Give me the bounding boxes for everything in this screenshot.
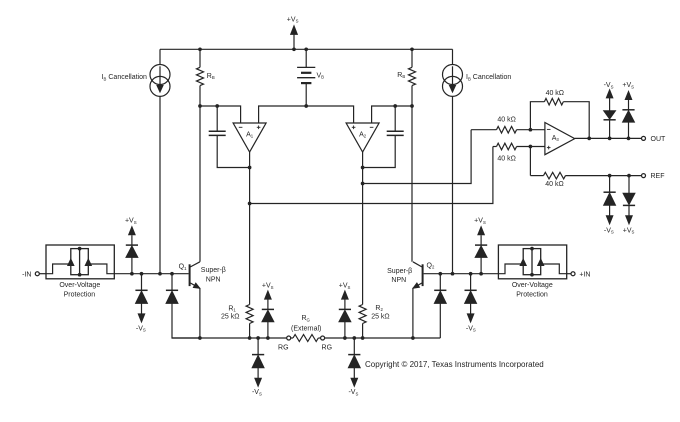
svg-text:R2: R2 (375, 305, 383, 312)
svg-text:Copyright © 2017, Texas Instru: Copyright © 2017, Texas Instruments Inco… (365, 360, 544, 369)
svg-text:25 kΩ: 25 kΩ (221, 314, 239, 321)
svg-text:-VS: -VS (466, 325, 476, 332)
svg-text:-IN: -IN (22, 271, 31, 278)
svg-text:Q1: Q1 (179, 264, 187, 271)
svg-text:+IN: +IN (579, 271, 590, 278)
svg-text:NPN: NPN (206, 276, 221, 283)
svg-text:Over-Voltage: Over-Voltage (59, 282, 100, 289)
svg-text:OUT: OUT (651, 136, 667, 143)
svg-text:RG: RG (322, 345, 333, 352)
svg-text:VB: VB (317, 72, 325, 79)
svg-text:RB: RB (207, 73, 215, 80)
svg-text:IB Cancellation: IB Cancellation (466, 74, 511, 81)
svg-text:+VS: +VS (474, 218, 486, 225)
svg-text:Super-β: Super-β (387, 268, 412, 275)
svg-text:+VS: +VS (287, 16, 299, 23)
svg-text:Protection: Protection (64, 291, 96, 298)
svg-text:-VS: -VS (136, 325, 146, 332)
svg-text:RG: RG (301, 315, 310, 322)
svg-text:+VS: +VS (623, 227, 635, 234)
svg-text:-VS: -VS (348, 389, 358, 396)
svg-text:-VS: -VS (252, 389, 262, 396)
svg-text:+VS: +VS (622, 82, 634, 89)
svg-text:+VS: +VS (339, 283, 351, 290)
svg-text:Protection: Protection (516, 291, 548, 298)
svg-text:Super-β: Super-β (201, 267, 226, 274)
svg-text:A1: A1 (246, 131, 254, 138)
svg-text:-VS: -VS (604, 82, 614, 89)
svg-text:25 kΩ: 25 kΩ (371, 314, 389, 321)
svg-text:+VS: +VS (125, 218, 137, 225)
svg-text:40 kΩ: 40 kΩ (497, 156, 515, 163)
svg-text:-VS: -VS (604, 227, 614, 234)
svg-text:A3: A3 (552, 135, 560, 142)
svg-text:40 kΩ: 40 kΩ (545, 181, 563, 188)
svg-text:RG: RG (278, 345, 289, 352)
svg-text:+VS: +VS (262, 283, 274, 290)
svg-text:Over-Voltage: Over-Voltage (512, 282, 553, 289)
svg-text:NPN: NPN (391, 277, 406, 284)
svg-text:IB Cancellation: IB Cancellation (102, 74, 147, 81)
svg-text:Q2: Q2 (427, 263, 435, 270)
svg-text:R1: R1 (228, 305, 236, 312)
svg-text:A2: A2 (359, 131, 367, 138)
svg-text:(External): (External) (291, 325, 321, 332)
svg-text:REF: REF (651, 173, 665, 180)
svg-text:RB: RB (397, 72, 405, 79)
svg-text:40 kΩ: 40 kΩ (546, 90, 564, 97)
svg-text:40 kΩ: 40 kΩ (497, 116, 515, 123)
